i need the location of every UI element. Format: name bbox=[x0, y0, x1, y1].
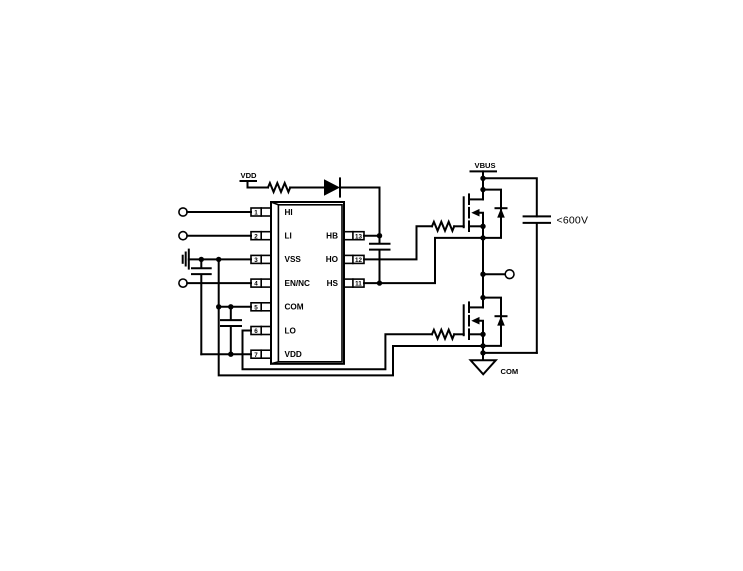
pin 3 box bbox=[251, 255, 271, 264]
capacitor C-VDD-COM bbox=[221, 307, 241, 354]
svg-text:VDD: VDD bbox=[285, 350, 302, 359]
node COM-VSS bbox=[216, 304, 221, 309]
svg-text:11: 11 bbox=[355, 281, 362, 288]
wire resistor to diode bbox=[290, 187, 324, 189]
input terminal LI bbox=[179, 232, 187, 240]
wire HI input bbox=[187, 211, 251, 213]
diode D-boot bbox=[324, 178, 340, 196]
VBUS terminal bbox=[471, 161, 497, 178]
pin 7 box bbox=[251, 350, 271, 359]
transistor Q-high bbox=[464, 171, 486, 231]
svg-text:7: 7 bbox=[254, 352, 258, 359]
node VSS-COM branch bbox=[216, 257, 221, 262]
wire bulk cap return bbox=[483, 352, 537, 354]
wire VSS-COM return bbox=[219, 259, 483, 375]
svg-text:HB: HB bbox=[326, 232, 338, 241]
transistor Q-low bbox=[464, 295, 486, 339]
ground symbol (signal ground at VSS) bbox=[183, 250, 189, 269]
wire HS pin to half-bridge node bbox=[364, 238, 483, 283]
svg-text:COM: COM bbox=[501, 367, 519, 376]
input terminal HI bbox=[179, 208, 187, 216]
wire to output terminal bbox=[483, 273, 505, 275]
node bulk cap return bbox=[480, 350, 485, 355]
body diode D-low bbox=[483, 298, 507, 346]
wire HO pin to high gate resistor bbox=[364, 226, 432, 259]
svg-text:6: 6 bbox=[254, 328, 258, 335]
svg-text:1: 1 bbox=[254, 210, 258, 217]
svg-text:LO: LO bbox=[285, 326, 297, 335]
wire HB pin to node bbox=[364, 235, 380, 237]
wire EN input bbox=[187, 282, 251, 284]
pin 5 box bbox=[251, 303, 271, 312]
VDD supply terminal bbox=[241, 171, 258, 188]
pin 4 box bbox=[251, 279, 271, 288]
wire COM row bbox=[219, 306, 251, 308]
svg-text:HO: HO bbox=[326, 255, 339, 264]
pin 13 box bbox=[344, 232, 364, 241]
node HS junction bbox=[377, 280, 382, 285]
svg-text:VBUS: VBUS bbox=[475, 161, 496, 170]
svg-text:2: 2 bbox=[254, 233, 258, 240]
resistor R-gate-high bbox=[432, 222, 454, 231]
svg-text:<600V: <600V bbox=[557, 215, 589, 227]
ground COM bbox=[471, 360, 519, 376]
node VBUS branch bbox=[480, 176, 485, 181]
wire VDD to resistor bbox=[248, 187, 269, 189]
node COM return bbox=[480, 343, 485, 348]
wire diode to HB node bbox=[340, 188, 380, 236]
wire VBUS to bulk cap bbox=[483, 178, 537, 216]
capacitor C-VDD-VSS bbox=[192, 259, 211, 354]
svg-text:HI: HI bbox=[285, 208, 293, 217]
wire VDD row (pin7) bbox=[201, 353, 251, 355]
svg-text:EN/NC: EN/NC bbox=[285, 279, 311, 288]
output terminal bbox=[505, 270, 514, 279]
svg-text:3: 3 bbox=[254, 257, 258, 264]
resistor R-VDD bbox=[268, 183, 290, 192]
body diode D-high bbox=[483, 190, 507, 238]
node HB junction bbox=[377, 233, 382, 238]
svg-text:LI: LI bbox=[285, 232, 292, 241]
svg-text:HS: HS bbox=[327, 279, 339, 288]
svg-text:VSS: VSS bbox=[285, 255, 302, 264]
pin 6 box bbox=[251, 327, 271, 336]
svg-text:4: 4 bbox=[254, 281, 258, 288]
pin 12 box bbox=[344, 255, 364, 264]
svg-text:COM: COM bbox=[285, 303, 304, 312]
svg-text:12: 12 bbox=[355, 257, 363, 264]
pin 2 box bbox=[251, 232, 271, 241]
capacitor C-bus bbox=[524, 216, 550, 353]
wire LI input bbox=[187, 235, 251, 237]
node output bbox=[480, 272, 485, 277]
svg-text:5: 5 bbox=[254, 304, 258, 311]
pin 1 box bbox=[251, 208, 271, 217]
resistor R-gate-low bbox=[432, 330, 454, 339]
input terminal EN bbox=[179, 279, 187, 287]
wire to high gate bbox=[454, 225, 464, 227]
svg-text:VDD: VDD bbox=[241, 171, 258, 180]
node COM-capB bbox=[228, 304, 233, 309]
wire to low gate bbox=[454, 333, 464, 335]
node VDD-capB bbox=[228, 352, 233, 357]
node VSS-capA bbox=[199, 257, 204, 262]
capacitor C-boot bbox=[370, 236, 390, 283]
IC body U1 bbox=[271, 202, 344, 364]
wire LO to gate resistor bbox=[243, 331, 433, 370]
wire COM rail bbox=[482, 334, 484, 360]
pin 11 box bbox=[344, 279, 364, 288]
wire VSS row bbox=[189, 258, 251, 260]
svg-text:13: 13 bbox=[355, 233, 363, 240]
wire HS rail to output bbox=[482, 226, 484, 297]
node HS rail bbox=[480, 235, 485, 240]
